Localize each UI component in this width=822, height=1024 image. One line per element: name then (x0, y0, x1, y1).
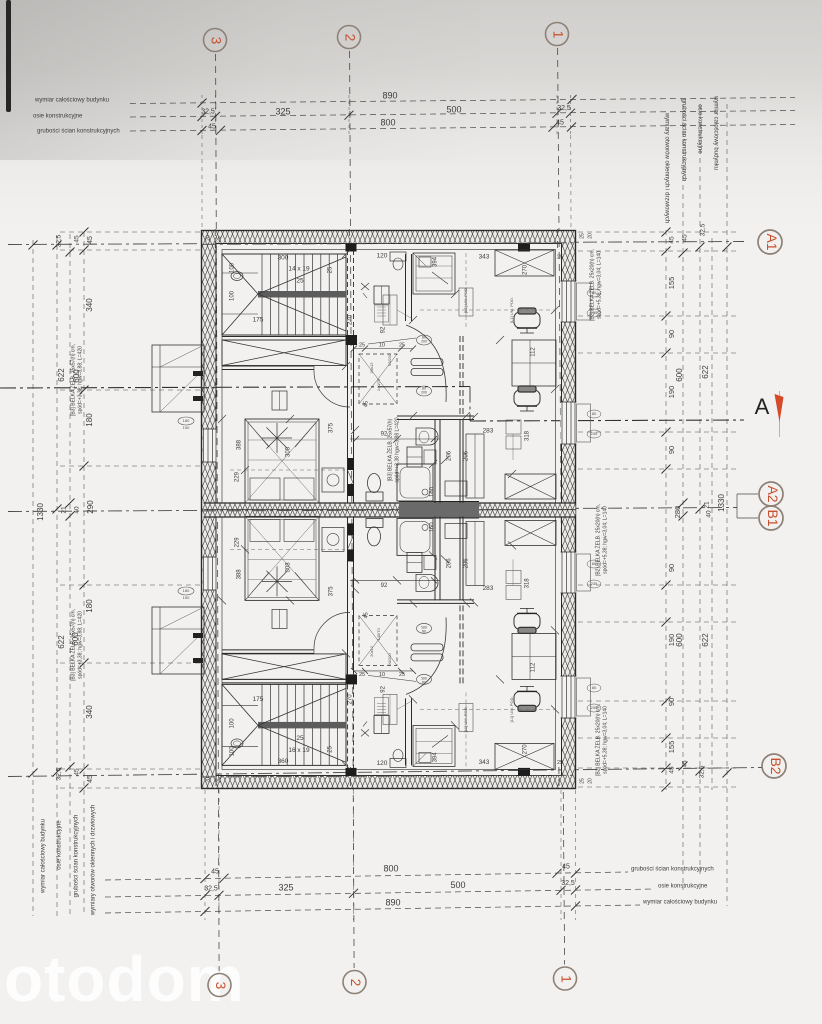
svg-text:25: 25 (359, 672, 365, 678)
svg-text:90: 90 (667, 564, 676, 572)
svg-text:45: 45 (682, 760, 689, 768)
svg-text:140/70: 140/70 (376, 628, 381, 641)
svg-text:32,5: 32,5 (204, 885, 218, 892)
svg-text:206: 206 (464, 558, 470, 569)
svg-text:45: 45 (363, 401, 369, 407)
svg-text:200: 200 (421, 676, 427, 680)
svg-text:grubości ścian konstrukcyjnych: grubości ścian konstrukcyjnych (680, 99, 686, 182)
svg-text:[L1] UM. POD.: [L1] UM. POD. (463, 287, 468, 313)
svg-text:120: 120 (377, 760, 388, 767)
svg-text:270: 270 (523, 744, 529, 755)
svg-text:622: 622 (701, 633, 710, 647)
svg-text:283: 283 (483, 585, 494, 592)
svg-text:388: 388 (237, 569, 243, 580)
svg-text:90: 90 (667, 446, 676, 454)
svg-text:[B3] BELKA ŻELB. 25x57(h) cm,: [B3] BELKA ŻELB. 25x57(h) cm, (69, 609, 76, 681)
svg-text:14 x 19: 14 x 19 (288, 266, 310, 273)
svg-text:[L1] UM. POD.: [L1] UM. POD. (463, 706, 468, 732)
svg-text:90/200: 90/200 (387, 353, 392, 366)
svg-text:25: 25 (399, 342, 405, 348)
svg-text:32,5: 32,5 (700, 223, 707, 236)
svg-text:308: 308 (286, 446, 292, 457)
svg-text:25: 25 (557, 760, 563, 766)
svg-text:229: 229 (235, 471, 241, 482)
svg-text:[L1] UM. POD.: [L1] UM. POD. (509, 297, 514, 323)
svg-text:890: 890 (385, 897, 400, 907)
svg-text:1330: 1330 (36, 503, 45, 521)
svg-text:45: 45 (669, 236, 676, 244)
svg-text:45: 45 (87, 236, 94, 244)
svg-text:180: 180 (85, 599, 94, 613)
svg-text:80: 80 (592, 685, 597, 690)
svg-text:92: 92 (381, 432, 388, 438)
svg-text:290: 290 (86, 500, 95, 514)
svg-text:40: 40 (74, 506, 81, 514)
svg-text:175: 175 (253, 317, 264, 324)
svg-text:B1: B1 (765, 509, 781, 526)
svg-text:3: 3 (208, 37, 223, 45)
svg-text:45: 45 (363, 612, 369, 618)
svg-text:32,5: 32,5 (56, 234, 63, 247)
svg-text:92: 92 (381, 685, 387, 692)
svg-text:155: 155 (667, 741, 676, 754)
svg-text:[B3] BELKA ŻELB. 25x57(h): [B3] BELKA ŻELB. 25x57(h) (386, 418, 393, 481)
svg-text:1: 1 (558, 975, 573, 983)
svg-text:270: 270 (348, 314, 354, 325)
svg-text:[B3] BELKA ŻELB. 25x57(h) cm,: [B3] BELKA ŻELB. 25x57(h) cm, (69, 344, 76, 416)
svg-text:32,5: 32,5 (557, 105, 571, 112)
svg-text:890: 890 (382, 90, 397, 100)
svg-text:spód=+5,38; hgw=3,04; L=140: spód=+5,38; hgw=3,04; L=140 (602, 506, 608, 574)
svg-text:622: 622 (57, 635, 66, 649)
svg-text:A: A (755, 394, 770, 419)
svg-text:3: 3 (213, 982, 228, 990)
svg-text:160: 160 (430, 522, 436, 533)
svg-text:235: 235 (591, 705, 598, 710)
svg-text:622: 622 (701, 365, 710, 379)
svg-text:180: 180 (183, 588, 190, 593)
svg-text:wymiar całościowy budynku: wymiar całościowy budynku (642, 900, 717, 906)
svg-text:wymiar całościowy budynku: wymiar całościowy budynku (41, 819, 47, 894)
svg-text:90: 90 (667, 330, 676, 338)
svg-text:25: 25 (216, 236, 222, 242)
svg-text:spód=+5,38; hgw=3,04; L=140: spód=+5,38; hgw=3,04; L=140 (602, 706, 608, 774)
svg-text:270: 270 (523, 264, 529, 275)
svg-text:32,5: 32,5 (56, 767, 63, 780)
svg-text:spód=+3,38; hgw=3,88; L=420: spód=+3,38; hgw=3,88; L=420 (77, 346, 83, 414)
svg-text:325: 325 (275, 106, 290, 116)
svg-text:45: 45 (556, 119, 564, 126)
svg-text:80: 80 (592, 290, 597, 295)
svg-text:A2: A2 (765, 485, 781, 502)
svg-text:175: 175 (253, 696, 264, 703)
svg-text:25: 25 (399, 672, 405, 678)
svg-text:800: 800 (383, 863, 398, 873)
svg-text:45: 45 (74, 768, 81, 776)
svg-text:10: 10 (379, 672, 385, 678)
svg-text:2: 2 (342, 34, 357, 42)
svg-text:180: 180 (85, 413, 94, 427)
svg-text:375: 375 (329, 586, 335, 597)
svg-text:20x12: 20x12 (369, 362, 374, 374)
svg-text:140/70: 140/70 (376, 378, 381, 391)
svg-text:25: 25 (557, 254, 563, 260)
svg-text:40: 40 (706, 510, 713, 518)
svg-text:150: 150 (183, 595, 190, 600)
svg-text:622: 622 (57, 368, 66, 382)
svg-text:500: 500 (450, 880, 465, 890)
svg-text:343: 343 (479, 759, 490, 766)
svg-text:grubości ścian konstrukcyjnych: grubości ścian konstrukcyjnych (37, 129, 120, 135)
svg-text:osie konstrukcyjne: osie konstrukcyjne (696, 104, 702, 154)
svg-text:wymiary otworów okiennych i dr: wymiary otworów okiennych i drzwiowych (91, 805, 97, 916)
svg-text:80: 80 (592, 411, 597, 416)
svg-text:300: 300 (278, 255, 289, 262)
svg-text:[B2] BELKA ŻELB. 25x20(h) cm,: [B2] BELKA ŻELB. 25x20(h) cm, (594, 704, 601, 776)
svg-text:25: 25 (296, 735, 304, 742)
svg-text:25: 25 (328, 745, 334, 752)
svg-text:318: 318 (525, 430, 531, 441)
svg-text:25: 25 (359, 342, 365, 348)
svg-text:45: 45 (682, 234, 689, 242)
svg-text:206: 206 (464, 450, 470, 461)
svg-text:32,5: 32,5 (201, 108, 215, 115)
svg-text:394: 394 (433, 256, 439, 267)
svg-text:318: 318 (525, 578, 531, 589)
svg-text:235: 235 (591, 310, 598, 315)
svg-text:[L1] UM. POD.: [L1] UM. POD. (509, 696, 514, 722)
svg-text:45: 45 (211, 868, 219, 875)
svg-text:235: 235 (591, 431, 598, 436)
svg-text:200: 200 (421, 625, 427, 629)
svg-text:45: 45 (562, 863, 570, 870)
svg-text:270: 270 (348, 694, 354, 705)
svg-text:100: 100 (230, 746, 236, 757)
svg-text:20: 20 (587, 233, 593, 239)
svg-text:100: 100 (230, 262, 236, 273)
svg-text:wymiary otworów okiennych i dr: wymiary otworów okiennych i drzwiowych (663, 112, 669, 223)
svg-text:grubości ścian konstrukcyjnych: grubości ścian konstrukcyjnych (631, 867, 714, 873)
svg-text:100: 100 (230, 290, 236, 301)
svg-text:20x12: 20x12 (369, 645, 374, 657)
svg-text:92: 92 (381, 326, 387, 333)
svg-text:25: 25 (579, 778, 585, 784)
svg-text:120: 120 (377, 253, 388, 260)
svg-text:235: 235 (591, 581, 598, 586)
svg-text:25: 25 (296, 278, 304, 285)
svg-text:90/200: 90/200 (387, 653, 392, 666)
svg-text:32,5: 32,5 (561, 880, 575, 887)
svg-text:200: 200 (421, 391, 427, 395)
svg-text:112: 112 (531, 347, 537, 357)
svg-text:340: 340 (85, 298, 94, 312)
svg-text:90: 90 (667, 698, 676, 706)
svg-text:308: 308 (286, 562, 292, 573)
svg-text:osie konstrukcyjne: osie konstrukcyjne (33, 114, 83, 120)
svg-text:2: 2 (348, 979, 363, 987)
svg-text:340: 340 (85, 705, 94, 719)
svg-text:180: 180 (183, 418, 190, 423)
svg-text:343: 343 (479, 254, 490, 261)
svg-text:osie konstrukcyjne: osie konstrukcyjne (57, 820, 63, 870)
svg-text:32,5: 32,5 (699, 765, 706, 778)
svg-text:25: 25 (328, 266, 334, 273)
svg-text:500: 500 (446, 104, 461, 114)
svg-text:360: 360 (278, 758, 289, 765)
svg-text:21: 21 (61, 506, 68, 514)
svg-text:20: 20 (587, 778, 593, 784)
svg-text:388: 388 (237, 439, 243, 450)
svg-text:155: 155 (667, 277, 676, 290)
svg-text:wymiar całościowy budynku: wymiar całościowy budynku (34, 98, 109, 104)
svg-text:394: 394 (433, 752, 439, 763)
svg-text:spód=+5,38; hgw=3,04; L=140: spód=+5,38; hgw=3,04; L=140 (596, 251, 602, 319)
svg-text:10: 10 (379, 342, 385, 348)
svg-text:92: 92 (381, 583, 388, 589)
svg-text:20: 20 (205, 235, 211, 241)
svg-text:229: 229 (235, 537, 241, 548)
svg-text:45: 45 (74, 235, 81, 243)
svg-text:A1: A1 (764, 233, 780, 250)
svg-text:160: 160 (430, 486, 436, 497)
svg-text:375: 375 (329, 422, 335, 433)
svg-text:1: 1 (550, 31, 565, 39)
svg-text:325: 325 (278, 882, 293, 892)
svg-text:206: 206 (447, 558, 453, 569)
svg-text:112: 112 (531, 662, 537, 672)
svg-text:45: 45 (87, 775, 94, 783)
svg-text:150: 150 (183, 425, 190, 430)
svg-text:190: 190 (667, 386, 676, 399)
svg-text:100: 100 (230, 718, 236, 729)
svg-text:283: 283 (483, 428, 494, 435)
svg-text:grubości ścian konstrukcyjnych: grubości ścian konstrukcyjnych (74, 815, 80, 898)
svg-text:800: 800 (380, 117, 395, 127)
svg-text:wymiar całościowy budynku: wymiar całościowy budynku (712, 95, 718, 170)
svg-text:600: 600 (675, 368, 684, 382)
svg-text:280: 280 (673, 506, 682, 519)
svg-text:80: 80 (592, 561, 597, 566)
svg-text:1330: 1330 (717, 494, 726, 512)
svg-text:20: 20 (205, 777, 211, 783)
svg-text:16 x 19: 16 x 19 (288, 747, 310, 754)
svg-text:600: 600 (675, 633, 684, 647)
svg-text:25: 25 (216, 777, 222, 783)
svg-text:206: 206 (447, 450, 453, 461)
svg-text:200: 200 (421, 340, 427, 344)
svg-text:45: 45 (208, 123, 216, 130)
svg-text:B2: B2 (768, 757, 784, 774)
svg-text:spód=+3,38; hgw=3,88; L=420: spód=+3,38; hgw=3,88; L=420 (77, 611, 83, 679)
svg-text:25: 25 (579, 233, 585, 239)
svg-text:45: 45 (669, 766, 676, 774)
